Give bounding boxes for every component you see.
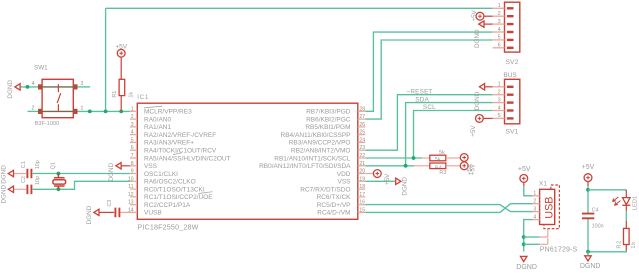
svg-text:5: 5 — [131, 137, 134, 143]
ground DGND at C3 — [86, 205, 99, 224]
svg-text:100n: 100n — [592, 223, 604, 229]
connector SV1 pin 2 bar — [507, 94, 514, 96]
wire RB1 to R4 — [365, 157, 422, 159]
connector SV2 pin 4 lead — [493, 31, 505, 33]
svg-text:RA1/AN1: RA1/AN1 — [144, 124, 171, 131]
wire +5V C4 branch upper — [587, 186, 589, 213]
power +5V at C4 — [582, 164, 595, 181]
svg-text:4: 4 — [131, 130, 134, 136]
pin 16 stub — [358, 204, 366, 206]
svg-text:27: 27 — [359, 114, 365, 120]
svg-text:28: 28 — [359, 106, 365, 112]
ground SV2 pin3 link — [484, 23, 492, 25]
svg-text:R2: R2 — [617, 240, 623, 249]
svg-text:12: 12 — [128, 192, 134, 198]
pin 13 stub — [130, 204, 137, 206]
svg-text:PN61729-S: PN61729-S — [540, 247, 578, 254]
resistor R3 left lead — [414, 165, 430, 167]
svg-text:1: 1 — [533, 191, 536, 197]
connector SV2 pin 3 bar — [507, 23, 514, 25]
svg-text:RB3/AN9/CCP2/VPO: RB3/AN9/CCP2/VPO — [289, 140, 351, 147]
resistor R3 right lead — [446, 165, 461, 167]
ground DGND at SV1 pin1 — [474, 84, 485, 111]
pin 3 stub — [130, 126, 137, 128]
svg-text:15: 15 — [359, 207, 365, 213]
ground DGND below X1 — [516, 256, 537, 271]
pin 23 stub — [358, 149, 366, 151]
wire D- RC4 to USB pin2 — [365, 204, 532, 213]
pin 18 stub — [358, 188, 366, 190]
junction crystal top — [57, 172, 61, 176]
svg-text:19: 19 — [359, 176, 365, 182]
junction MCLR at x90 — [88, 110, 92, 114]
svg-text:3: 3 — [498, 97, 501, 103]
connector X1 pin 3 lead — [533, 211, 540, 213]
svg-text:C1: C1 — [21, 161, 27, 168]
capacitor C2 left lead — [14, 188, 26, 190]
svg-text:RB5/KBI1/PGM: RB5/KBI1/PGM — [305, 124, 350, 131]
svg-text:3: 3 — [81, 81, 84, 87]
capacitor C3 left lead — [99, 211, 114, 213]
svg-text:7: 7 — [131, 153, 134, 159]
wire SCL net — [414, 111, 493, 159]
ground DGND at SW1 — [7, 80, 20, 99]
connector X1 USB solid body — [540, 189, 555, 224]
resistor R3 body — [430, 163, 446, 169]
junction SDA — [404, 164, 408, 168]
wire MCLR to IC pin 1 — [77, 110, 129, 112]
capacitor C1 plates — [27, 169, 31, 179]
svg-text:+5V: +5V — [471, 9, 478, 21]
wire switch pin2 stub — [28, 110, 39, 112]
connector SV1 pin 3 lead — [493, 102, 505, 104]
wire MCLR top horizontal — [106, 7, 493, 9]
connector SV2 pin 5 bar — [507, 39, 514, 41]
overline SS — [173, 153, 182, 155]
svg-text:RB0/AN12/INT0/LFT0/SDI/SDA: RB0/AN12/INT0/LFT0/SDI/SDA — [259, 163, 351, 170]
svg-text:VSS: VSS — [337, 179, 351, 186]
ground DGND at SV2 pin3 — [474, 21, 484, 48]
svg-text:C4: C4 — [592, 207, 599, 213]
wire OSC2 net — [33, 181, 130, 189]
svg-text:RC2/CCP1/P1A: RC2/CCP1/P1A — [144, 202, 191, 209]
switch SW1 actuator — [57, 84, 61, 111]
svg-text:USB: USB — [543, 196, 555, 218]
power +5V at IC pin20 — [373, 170, 390, 185]
svg-text:5: 5 — [498, 113, 501, 119]
pin 12 stub — [130, 196, 137, 198]
diode LED1 — [613, 190, 631, 251]
switch SW1 body — [42, 79, 73, 117]
connector SV2 pin 5 lead — [493, 39, 505, 41]
svg-text:1: 1 — [498, 82, 501, 88]
power SV1 pin5 link — [483, 117, 493, 119]
svg-text:LED1: LED1 — [633, 196, 639, 211]
power X1 link — [523, 182, 525, 186]
svg-text:C2: C2 — [21, 176, 27, 183]
svg-text:RC0/T1OSO/T13CKI: RC0/T1OSO/T13CKI — [144, 186, 205, 193]
svg-text:RC4/D-/VM: RC4/D-/VM — [317, 210, 350, 217]
svg-text:10p: 10p — [35, 160, 41, 169]
wire switch pin3 stub — [77, 86, 90, 88]
svg-text:3: 3 — [533, 206, 536, 212]
svg-text:1k: 1k — [631, 241, 637, 248]
connector SV2 pin 1 lead — [493, 7, 505, 9]
svg-text:R3: R3 — [439, 170, 446, 176]
wire ~RESET net — [365, 95, 492, 151]
svg-text:10p: 10p — [35, 176, 41, 185]
svg-text:~RESET: ~RESET — [406, 88, 432, 95]
svg-text:9: 9 — [131, 169, 134, 175]
svg-text:RC1/T1OSI/CCP2/UOE: RC1/T1OSI/CCP2/UOE — [144, 194, 213, 201]
wire +5V to USB pin1 — [524, 186, 533, 196]
capacitor C2 plates — [27, 185, 31, 195]
svg-text:VDD: VDD — [337, 171, 351, 178]
svg-text:RB4/AN11/KBI0/CSSPP: RB4/AN11/KBI0/CSSPP — [281, 132, 351, 139]
junction switch DGND — [26, 85, 30, 89]
overline MCLR — [144, 106, 162, 108]
resistor R4 left lead — [422, 157, 430, 159]
svg-text:SV1: SV1 — [506, 129, 519, 136]
svg-text:RA5/AN4/SS/HLVDIN/C2OUT: RA5/AN4/SS/HLVDIN/C2OUT — [144, 155, 231, 162]
svg-text:IC1: IC1 — [137, 95, 149, 101]
svg-text:3: 3 — [131, 122, 134, 128]
svg-text:1k: 1k — [129, 92, 135, 98]
pin 5 stub — [130, 141, 137, 143]
connector SV1 pin 4 bar — [507, 109, 514, 111]
pin 19 stub — [358, 180, 366, 182]
connector X1 pin 4 lead — [533, 219, 540, 221]
svg-text:26: 26 — [359, 122, 365, 128]
svg-text:2: 2 — [131, 114, 134, 120]
wire SDA net — [406, 103, 493, 166]
wire OSC1 net — [33, 173, 130, 175]
svg-text:1: 1 — [498, 3, 501, 9]
svg-text:21: 21 — [359, 161, 365, 167]
power SV2 pin2 link — [484, 15, 493, 17]
connector SV2 pin 2 bar — [507, 15, 514, 17]
switch SW1 pad — [73, 109, 77, 114]
svg-text:RA0/AN0: RA0/AN0 — [144, 116, 171, 123]
connector SV2 pin 1 bar — [507, 7, 514, 9]
svg-text:R1: R1 — [112, 91, 118, 98]
svg-text:4: 4 — [498, 105, 501, 111]
svg-text:13: 13 — [128, 200, 134, 206]
svg-text:DGND: DGND — [474, 29, 481, 48]
wire VSS pin19 to DGND — [365, 180, 395, 182]
connector SV1 pin 4 lead — [493, 110, 505, 112]
pin 25 stub — [358, 134, 366, 136]
svg-text:C3: C3 — [107, 200, 113, 207]
pin 4 stub — [130, 134, 137, 136]
power +5V at R4 — [460, 154, 476, 176]
svg-text:11: 11 — [128, 184, 133, 190]
svg-text:23: 23 — [359, 145, 365, 151]
svg-text:DGND: DGND — [0, 185, 7, 204]
op-amp U1 IC1 PIC18F2550 box — [137, 103, 357, 219]
power C4 link — [587, 181, 589, 186]
svg-text:RA3/AN3/VREF+: RA3/AN3/VREF+ — [144, 140, 194, 147]
power pin20 link — [365, 173, 373, 175]
power +5V at SV1 pin5 — [470, 115, 483, 137]
svg-text:+5V: +5V — [470, 125, 477, 137]
resistor R4 right lead — [446, 157, 461, 159]
switch SW1 pad — [38, 109, 42, 114]
junction C4 top — [586, 188, 590, 192]
resistor R1 top lead — [120, 57, 122, 79]
wire switch pin4 to DGND — [21, 86, 38, 88]
svg-text:+5V: +5V — [115, 43, 127, 50]
svg-text:OSC1/CLKI: OSC1/CLKI — [144, 171, 178, 178]
pin 20 stub — [358, 173, 366, 175]
svg-text:25: 25 — [359, 130, 365, 136]
ground DGND at IC pin8 — [108, 163, 121, 182]
connector X1 pin 1 lead — [533, 195, 540, 197]
ground DGND at IC pin19 — [396, 177, 409, 196]
svg-text:RA4/T0CKI/C1OUT/RCV: RA4/T0CKI/C1OUT/RCV — [144, 148, 217, 155]
svg-text:RB2/AN8/INT2/VMO: RB2/AN8/INT2/VMO — [291, 148, 351, 155]
svg-text:X1: X1 — [539, 181, 547, 188]
pin 27 stub — [358, 118, 366, 120]
connector X1 shield pins — [540, 229, 548, 245]
svg-text:5: 5 — [498, 35, 501, 41]
svg-text:1: 1 — [81, 106, 84, 112]
svg-text:DGND: DGND — [580, 263, 601, 270]
wire R2 to DGND net — [588, 250, 626, 252]
pin 28 stub — [358, 110, 366, 112]
wire RB6 to SV2 pin5 — [365, 40, 492, 119]
ground SV1 pin1 link — [485, 86, 493, 88]
svg-text:DGND: DGND — [108, 163, 115, 182]
wire RB7 to SV2 pin4 — [365, 32, 492, 111]
connector X1 pin 2 lead — [533, 203, 540, 205]
pin 2 stub — [130, 118, 137, 120]
svg-text:5k: 5k — [435, 157, 441, 163]
connector SV1 pin 1 lead — [493, 86, 505, 88]
power +5V above R1 — [115, 43, 127, 57]
pin 14 stub — [130, 211, 137, 213]
resistor R4 body — [430, 155, 446, 161]
svg-text:RA6/OSC2/CLKO: RA6/OSC2/CLKO — [144, 179, 196, 186]
svg-text:DGND: DGND — [0, 165, 7, 184]
svg-text:RC5/D+/VP: RC5/D+/VP — [317, 202, 351, 209]
wire +5V to LED1 — [588, 189, 626, 191]
svg-text:DGND: DGND — [474, 91, 481, 110]
svg-text:PIC18F2550_28W: PIC18F2550_28W — [137, 223, 198, 231]
svg-text:Q1: Q1 — [51, 162, 57, 169]
svg-text:VSS: VSS — [144, 163, 158, 170]
capacitor C3 plates — [115, 208, 119, 218]
svg-text:4: 4 — [533, 214, 536, 220]
svg-text:6: 6 — [498, 43, 501, 49]
pin 7 stub — [130, 157, 137, 159]
pin 11 stub — [130, 188, 137, 190]
svg-text:+5V: +5V — [467, 163, 474, 175]
svg-text:20: 20 — [359, 169, 365, 175]
svg-text:MCLR/VPP/RE3: MCLR/VPP/RE3 — [144, 109, 192, 116]
svg-text:6: 6 — [131, 145, 134, 151]
junction crystal bottom — [57, 187, 61, 191]
connector SV1 pin 5 bar — [507, 117, 514, 119]
svg-text:1: 1 — [131, 106, 134, 112]
svg-text:DGND: DGND — [516, 264, 537, 271]
svg-text:24: 24 — [359, 137, 365, 143]
pin 9 stub — [130, 173, 137, 175]
svg-text:+5V: +5V — [582, 164, 595, 171]
svg-text:RC7/RX/DT/SDO: RC7/RX/DT/SDO — [300, 186, 350, 193]
svg-text:DGND: DGND — [86, 205, 93, 224]
switch SW1 contact bar bottom — [39, 110, 78, 112]
svg-text:RC6/TX/CK: RC6/TX/CK — [317, 194, 352, 201]
svg-text:2: 2 — [498, 11, 501, 17]
svg-text:2: 2 — [32, 106, 35, 112]
power +5V at X1 — [518, 166, 531, 182]
svg-text:SCL: SCL — [423, 104, 436, 111]
resistor R1 body — [119, 79, 125, 95]
svg-text:+5V: +5V — [384, 173, 391, 185]
svg-text:VUSB: VUSB — [144, 210, 162, 217]
svg-text:RB1/AN10/INT1/SCK/SCL: RB1/AN10/INT1/SCK/SCL — [274, 155, 351, 162]
connector SV1 pin 3 bar — [507, 101, 514, 103]
junction USB shield 1 — [522, 235, 526, 239]
wire RB0 to R3 — [365, 165, 414, 167]
svg-text:+5V: +5V — [518, 166, 531, 173]
connector SV2 pin 6 lead — [493, 47, 505, 49]
pin 8 stub — [130, 165, 137, 167]
svg-text:B3F-1000: B3F-1000 — [35, 121, 60, 127]
svg-text:BUS: BUS — [503, 72, 517, 79]
junction MCLR at R1 — [119, 110, 123, 114]
svg-text:18: 18 — [359, 184, 365, 190]
ground DGND at C2 — [0, 185, 13, 204]
pin 1 stub — [130, 110, 137, 112]
connector SV1 pin 5 lead — [493, 117, 505, 119]
resistor R1 bottom lead — [120, 96, 122, 112]
svg-text:2: 2 — [533, 199, 536, 205]
wire C4 DGND drop — [587, 252, 589, 256]
wire MCLR left vertical — [105, 8, 107, 111]
wire D+ RC5 to USB pin3 — [365, 205, 532, 212]
wire shield stub 1 — [524, 236, 540, 238]
power +5V at R3 — [460, 162, 473, 175]
svg-text:RB7/KBI3/PGD: RB7/KBI3/PGD — [306, 109, 351, 116]
crystal Q1 — [53, 174, 66, 190]
connector SV1 pin 1 bar — [507, 86, 514, 88]
pin 6 stub — [130, 149, 137, 151]
switch SW1 contact bar top — [39, 86, 78, 88]
connector SV2 pin 6 bar — [507, 47, 514, 49]
wire shield stub 2 — [524, 243, 540, 245]
overline UOE — [199, 192, 213, 194]
svg-text:DGND: DGND — [401, 177, 408, 196]
ground pin8 link — [122, 165, 130, 167]
capacitor C3 right lead — [121, 211, 130, 213]
ground DGND at C1 — [0, 165, 13, 184]
pin 15 stub — [358, 211, 366, 213]
wire LED to R2 — [625, 211, 627, 221]
resistor R2 body — [624, 228, 630, 244]
connector SV2 box — [505, 2, 520, 52]
wire USB pin4 to DGND — [524, 220, 533, 252]
switch SW1 pad — [73, 84, 77, 89]
svg-text:SV2: SV2 — [506, 59, 519, 66]
wire C4 branch lower — [587, 219, 589, 252]
svg-text:4: 4 — [32, 81, 35, 87]
svg-text:10: 10 — [128, 176, 134, 182]
switch SW1 pad — [38, 84, 42, 89]
pin 17 stub — [358, 196, 366, 198]
connector X1 USB shield dashed — [544, 185, 560, 229]
connector SV1 pin 2 lead — [493, 94, 505, 96]
junction USB shield 2 — [522, 242, 526, 246]
junction MCLR at vertical — [104, 110, 108, 114]
connector SV2 pin 4 bar — [507, 31, 514, 33]
capacitor C4 plates — [582, 214, 594, 219]
svg-text:16: 16 — [359, 200, 365, 206]
svg-text:SW1: SW1 — [34, 64, 48, 71]
pin 10 stub — [130, 180, 137, 182]
svg-text:3: 3 — [498, 19, 501, 25]
svg-text:RA2/AN2/VREF-/CVREF: RA2/AN2/VREF-/CVREF — [144, 132, 216, 139]
svg-text:2: 2 — [498, 90, 501, 96]
ground DGND below C4 — [580, 256, 601, 270]
pin 26 stub — [358, 126, 366, 128]
capacitor C1 left lead — [14, 173, 26, 175]
svg-text:RB6/KBI2/PGC: RB6/KBI2/PGC — [306, 116, 351, 123]
connector SV2 pin 2 lead — [493, 15, 505, 17]
junction SCL — [412, 156, 416, 160]
junction R2 DGND — [586, 250, 590, 254]
svg-text:22: 22 — [359, 153, 365, 159]
pin 22 stub — [358, 157, 366, 159]
connector SV1 box — [505, 79, 520, 124]
connector SV2 pin 3 lead — [493, 23, 505, 25]
svg-text:17: 17 — [359, 192, 365, 198]
pin 21 stub — [358, 165, 366, 167]
svg-text:SDA: SDA — [415, 96, 429, 103]
svg-text:4: 4 — [498, 27, 501, 33]
svg-text:DGND: DGND — [7, 80, 14, 99]
svg-text:8: 8 — [131, 161, 134, 167]
power +5V at SV2 pin2 — [471, 9, 484, 21]
pin 24 stub — [358, 141, 366, 143]
